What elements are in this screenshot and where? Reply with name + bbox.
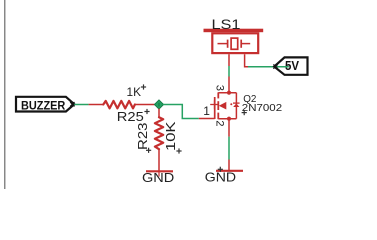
transistor Q2 origin cross xyxy=(210,100,219,109)
transistor Q2 gate pin wire xyxy=(199,118,215,120)
ground GND2 pin xyxy=(228,160,230,172)
svg-text:1: 1 xyxy=(203,104,210,118)
svg-text:2: 2 xyxy=(214,120,226,126)
resistor R23 pin top xyxy=(158,109,160,118)
net label BUZZER xyxy=(16,97,75,113)
resistor R23 zigzag xyxy=(155,117,163,149)
transistor Q2 gate bar xyxy=(214,97,216,119)
transistor Q2 body diode xyxy=(233,102,240,104)
svg-text:3: 3 xyxy=(213,85,225,91)
speaker LS1 pin 1 xyxy=(228,54,230,66)
origin cross for R23 xyxy=(146,148,151,153)
resistor R25 zigzag xyxy=(103,101,135,109)
speaker LS1 right electrode xyxy=(240,40,242,48)
transistor Q2 drain rail xyxy=(218,92,236,94)
ground GND2 bar xyxy=(216,170,243,172)
wire drain to buzzer (green) xyxy=(228,66,230,77)
resistor R25 pin right xyxy=(135,104,156,106)
wire buzzer to 5V supply xyxy=(248,66,289,68)
origin cross for 1K xyxy=(141,84,146,89)
transistor Q2 bulk arrow xyxy=(219,102,227,110)
wire junction to gate (3 segments) xyxy=(163,105,199,119)
origin cross for R25 xyxy=(144,109,149,114)
junction dot drain xyxy=(227,91,231,95)
transistor Q2 source rail xyxy=(218,118,236,120)
transistor Q2 diode rail xyxy=(235,93,237,119)
svg-text:10K: 10K xyxy=(163,121,178,151)
sheet edge line xyxy=(4,0,6,189)
speaker LS1 crystal rect xyxy=(231,38,238,49)
resistor R23 pin bottom xyxy=(158,149,160,171)
transistor Q2 source pin xyxy=(228,119,230,137)
speaker LS1 left electrode xyxy=(218,43,228,45)
svg-text:1K: 1K xyxy=(127,85,142,99)
supply +5V flag xyxy=(273,57,307,74)
origin cross for 2N7002 xyxy=(242,110,247,115)
node junction xyxy=(154,100,163,109)
svg-text:2N7002: 2N7002 xyxy=(242,102,282,114)
speaker LS1 pin 2 xyxy=(245,54,249,67)
resistor R25 pin left xyxy=(89,104,104,106)
svg-text:LS1: LS1 xyxy=(212,16,241,32)
svg-text:R23: R23 xyxy=(135,123,150,151)
transistor Q2 channel dashes xyxy=(217,92,219,119)
transistor Q2 drain pin xyxy=(228,77,230,93)
origin cross for 10K xyxy=(176,148,181,153)
wire source to GND2 (green) xyxy=(228,137,230,160)
speaker LS1 top bar xyxy=(204,29,264,33)
wire BUZZER to R25 xyxy=(74,104,88,106)
svg-text:R25: R25 xyxy=(117,109,144,124)
speaker LS1 body xyxy=(212,33,258,53)
origin cross GND2 xyxy=(218,167,223,172)
svg-text:5V: 5V xyxy=(285,58,299,73)
junction dot source xyxy=(227,117,231,121)
svg-text:GND: GND xyxy=(142,170,174,185)
svg-text:BUZZER: BUZZER xyxy=(21,101,66,113)
ground GND1 bar xyxy=(146,170,173,172)
